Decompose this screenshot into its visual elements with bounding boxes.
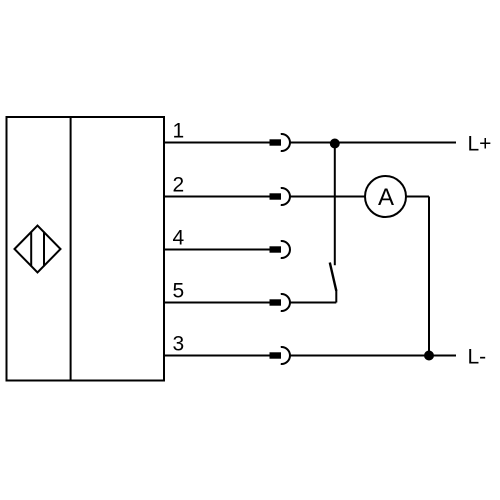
svg-text:3: 3 [173, 333, 185, 356]
svg-text:L+: L+ [468, 133, 492, 156]
svg-text:1: 1 [173, 120, 185, 143]
svg-text:4: 4 [173, 227, 185, 250]
svg-text:L-: L- [468, 346, 487, 369]
svg-text:2: 2 [173, 174, 185, 197]
svg-text:5: 5 [173, 280, 185, 303]
svg-text:A: A [378, 184, 394, 211]
